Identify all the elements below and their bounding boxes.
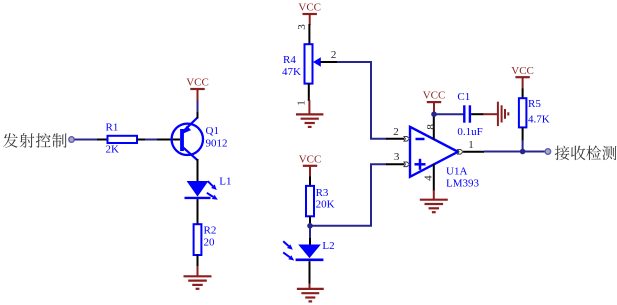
svg-text:L2: L2 <box>322 240 334 252</box>
svg-text:1: 1 <box>468 139 474 151</box>
svg-text:3: 3 <box>296 24 308 30</box>
svg-text:L1: L1 <box>219 175 231 187</box>
svg-text:20: 20 <box>204 236 216 248</box>
svg-text:2: 2 <box>393 126 399 138</box>
svg-text:2: 2 <box>331 49 337 61</box>
svg-text:VCC: VCC <box>298 2 321 14</box>
svg-text:VCC: VCC <box>299 153 322 165</box>
svg-text:VCC: VCC <box>186 77 209 89</box>
svg-text:3: 3 <box>394 151 400 163</box>
svg-text:VCC: VCC <box>511 65 534 77</box>
svg-text:R3: R3 <box>316 187 329 199</box>
svg-text:Q1: Q1 <box>206 125 219 137</box>
svg-text:R1: R1 <box>106 122 119 134</box>
svg-text:R4: R4 <box>283 54 296 66</box>
svg-text:4.7K: 4.7K <box>528 113 550 125</box>
svg-text:R2: R2 <box>204 225 217 237</box>
svg-text:2K: 2K <box>106 144 120 156</box>
svg-text:U1A: U1A <box>446 166 467 178</box>
svg-text:0.1uF: 0.1uF <box>457 126 482 138</box>
svg-text:20K: 20K <box>316 198 335 210</box>
svg-text:4: 4 <box>423 175 435 181</box>
svg-text:R5: R5 <box>528 98 541 110</box>
svg-text:47K: 47K <box>282 66 301 78</box>
svg-text:1: 1 <box>295 100 307 106</box>
svg-text:8: 8 <box>425 124 437 130</box>
svg-text:C1: C1 <box>457 91 470 103</box>
svg-text:9012: 9012 <box>206 137 228 149</box>
svg-text:LM393: LM393 <box>446 177 480 189</box>
svg-text:VCC: VCC <box>423 90 446 102</box>
